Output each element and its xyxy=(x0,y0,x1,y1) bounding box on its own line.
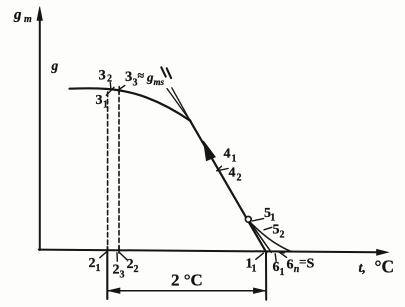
svg-text:3: 3 xyxy=(125,69,132,85)
svg-text:6: 6 xyxy=(287,258,294,273)
svg-text:2: 2 xyxy=(237,173,242,184)
svg-text:2: 2 xyxy=(134,264,139,275)
svg-text:1: 1 xyxy=(232,154,237,165)
svg-text:=: = xyxy=(299,254,306,269)
svg-text:1: 1 xyxy=(280,267,285,278)
svg-text:g: g xyxy=(51,58,59,73)
svg-text:4: 4 xyxy=(229,166,236,181)
svg-text:6: 6 xyxy=(273,260,280,275)
svg-text:3: 3 xyxy=(96,93,103,108)
svg-text:S: S xyxy=(307,257,315,272)
svg-text:t,: t, xyxy=(359,261,366,276)
svg-text:2: 2 xyxy=(89,256,96,271)
svg-text:2: 2 xyxy=(127,257,134,272)
svg-text:2: 2 xyxy=(107,74,112,85)
svg-text:ms: ms xyxy=(154,77,165,87)
svg-text:3: 3 xyxy=(120,270,125,281)
svg-text:g: g xyxy=(13,7,22,23)
svg-text:2: 2 xyxy=(113,263,120,278)
svg-text:≈: ≈ xyxy=(138,69,145,83)
svg-text:2: 2 xyxy=(280,230,285,241)
svg-text:1: 1 xyxy=(252,264,257,275)
svg-text:1: 1 xyxy=(96,263,101,274)
svg-text:°C: °C xyxy=(375,257,395,277)
svg-text:4: 4 xyxy=(224,147,231,162)
svg-text:5: 5 xyxy=(273,223,280,238)
svg-text:1: 1 xyxy=(103,100,108,111)
svg-text:2 °C: 2 °C xyxy=(171,270,203,289)
svg-text:m: m xyxy=(24,14,32,25)
svg-text:3: 3 xyxy=(99,68,106,84)
